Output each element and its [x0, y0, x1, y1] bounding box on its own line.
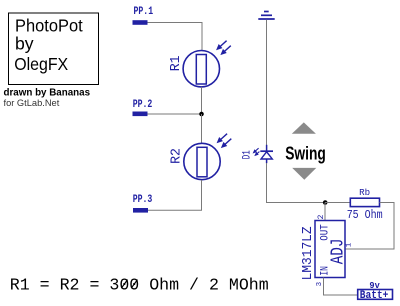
author note: [4, 88, 91, 108]
svg-text:2: 2: [317, 214, 326, 219]
wire R2 to PP.3: [148, 180, 202, 210]
terminal Batt+: [358, 290, 393, 303]
svg-text:IN: IN: [320, 266, 332, 276]
wire PP.1 to R1: [148, 23, 203, 52]
title block: [9, 13, 99, 85]
connector pad PP.2: [133, 99, 153, 116]
svg-text:PP.2: PP.2: [133, 99, 153, 111]
connector pad PP.3: [133, 194, 153, 213]
wire junction to R2: [201, 114, 203, 144]
svg-text:R2: R2: [168, 148, 184, 164]
LED D1: [242, 145, 273, 163]
connector pad PP.1: [133, 6, 154, 25]
svg-text:by: by: [15, 33, 34, 53]
junction node PP.2: [199, 112, 204, 117]
wire node A to Rb: [325, 202, 351, 204]
wire pin 3 to Batt+: [324, 278, 358, 296]
photoresistor R2: [168, 134, 231, 180]
svg-text:R1 = R2 = 300 Ohm / 2 MOhm: R1 = R2 = 300 Ohm / 2 MOhm: [10, 275, 269, 294]
svg-text:Rb: Rb: [359, 187, 370, 198]
wire ground to D1: [266, 20, 268, 146]
svg-text:Batt+: Batt+: [360, 290, 389, 302]
label 9v: [369, 280, 380, 291]
svg-text:OlegFX: OlegFX: [14, 54, 68, 74]
wire node A to pin 2: [324, 203, 326, 221]
pin 3 label: [316, 281, 324, 286]
svg-text:75 Ohm: 75 Ohm: [347, 209, 383, 222]
svg-text:PP.3: PP.3: [133, 194, 153, 206]
wire D1 to node A: [267, 163, 326, 203]
swing up arrow: [292, 122, 316, 133]
svg-text:for GtLab.Net: for GtLab.Net: [4, 98, 60, 108]
wire R1 to node PP.2: [201, 87, 203, 114]
note R1 = R2 = 300 Ohm / 2 MOhm: [10, 275, 269, 294]
svg-text:OUT: OUT: [320, 224, 332, 241]
pin 2 label: [317, 214, 326, 219]
svg-text:PP.1: PP.1: [134, 6, 154, 18]
label Swing: [285, 142, 326, 163]
wire PP.2 pad to junction: [148, 113, 202, 115]
svg-text:ADJ: ADJ: [329, 238, 349, 264]
svg-text:D1: D1: [242, 150, 254, 159]
svg-text:Swing: Swing: [285, 142, 326, 163]
ground: [258, 12, 274, 20]
resistor Rb: [347, 187, 383, 222]
regulator U1 LM317LZ: [301, 221, 349, 281]
wire Rb to pin 1: [345, 203, 394, 250]
pin 1 label: [345, 242, 353, 247]
svg-text:R1: R1: [168, 56, 184, 72]
swing down arrow: [292, 168, 316, 180]
junction node A: [323, 200, 328, 205]
svg-text:LM317LZ: LM317LZ: [301, 226, 316, 280]
photoresistor R1: [168, 41, 231, 87]
